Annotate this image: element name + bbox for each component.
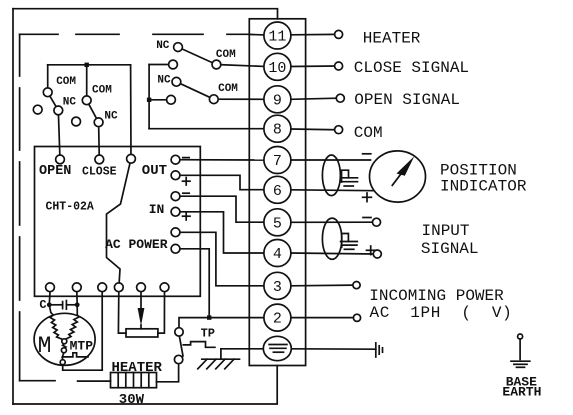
contact S3 COM xyxy=(212,60,221,69)
svg-text:30W: 30W xyxy=(119,392,145,408)
switch S3 arm (aux close) xyxy=(178,47,216,64)
wire terminal 5 to input minus xyxy=(291,221,372,223)
wire terminal2 to capacitor right xyxy=(76,292,78,305)
svg-text:NC: NC xyxy=(156,40,170,52)
wire switch common top line xyxy=(48,64,131,66)
wire to COM of close limit switch xyxy=(86,65,88,101)
contact S1 NO unconnected xyxy=(33,105,42,114)
svg-text:MTP: MTP xyxy=(70,339,94,354)
wire terminal3 vertical xyxy=(101,292,103,371)
wire IN- to terminal 5 xyxy=(176,196,264,222)
motor M body xyxy=(34,313,95,365)
svg-text:CLOSE SIGNAL: CLOSE SIGNAL xyxy=(354,59,469,77)
contact S2 NO unconnected xyxy=(72,117,81,126)
tag circle incoming 2 xyxy=(353,314,360,321)
pin CHT bottom 1 xyxy=(46,283,55,292)
tag circle OPEN SIGNAL xyxy=(336,94,344,102)
ground frame symbol right of strip xyxy=(376,343,383,357)
terminal strip outline xyxy=(249,19,305,366)
contact S4 NC xyxy=(172,77,181,86)
shield earth symbol lower xyxy=(341,234,358,250)
svg-text:OUT: OUT xyxy=(142,163,167,179)
svg-text:4: 4 xyxy=(273,246,282,263)
CHT-02A controller box xyxy=(35,147,201,297)
pin CHT bottom 3 xyxy=(98,283,107,292)
pin CHT bottom 2 xyxy=(72,283,81,292)
wire terminal4 to pot left xyxy=(118,292,126,334)
contact S3 NC xyxy=(174,43,183,52)
wire OUT- to terminal 7 xyxy=(176,159,264,161)
motor winding right xyxy=(66,305,79,339)
svg-text:SIGNAL: SIGNAL xyxy=(421,240,479,258)
wire terminal 4 to input plus xyxy=(291,253,373,254)
motor thermal protector blade xyxy=(62,353,88,357)
shield ellipse input signal cable xyxy=(322,218,341,259)
svg-text:COM: COM xyxy=(218,83,238,95)
switch S2 arm (close limit) xyxy=(87,100,99,122)
svg-text:INCOMING POWER: INCOMING POWER xyxy=(369,287,504,305)
relay arm inside CHT box xyxy=(107,159,132,285)
svg-text:HEATER: HEATER xyxy=(112,360,163,376)
terminal 5 xyxy=(264,209,291,236)
sign plus at meter xyxy=(363,193,372,202)
contact S4 NO xyxy=(167,95,176,104)
wire terminal 7 to meter minus xyxy=(291,159,371,161)
wire NC of S2 to CLOSE terminal xyxy=(98,122,101,159)
motor winding left xyxy=(49,305,63,340)
terminal earth circle xyxy=(263,336,291,360)
contact S4 COM xyxy=(209,95,218,104)
wire terminal 3 to incoming power xyxy=(291,284,353,287)
svg-text:COM: COM xyxy=(354,124,383,142)
svg-text:M: M xyxy=(38,333,52,359)
wire outer border top xyxy=(13,9,278,19)
pin CLOSE xyxy=(95,155,104,164)
terminal earth symbol bars xyxy=(269,345,287,353)
wire terminal 11 to heater tag xyxy=(291,33,335,35)
terminal 8 xyxy=(264,115,291,142)
tag circle input plus xyxy=(373,250,381,258)
svg-text:3: 3 xyxy=(273,279,282,296)
terminal 2 xyxy=(264,304,291,331)
svg-text:OPEN: OPEN xyxy=(39,164,71,179)
tag circle COM xyxy=(335,126,343,134)
sign plus at input signal xyxy=(367,246,376,255)
wire to COM of open limit switch xyxy=(47,65,49,93)
pin CHT bottom 5 xyxy=(137,283,146,292)
meter needle xyxy=(392,175,400,186)
pin CHT bottom 4 xyxy=(114,283,123,292)
svg-text:AC POWER: AC POWER xyxy=(105,237,168,252)
wire dashed enclosure top xyxy=(20,33,250,35)
wire S4 NO to common vertical xyxy=(149,99,171,101)
terminal 10 xyxy=(264,53,291,80)
wire earth terminal right xyxy=(291,348,376,350)
label right side tags xyxy=(354,30,527,323)
contact S2 COM xyxy=(82,96,91,105)
switch TP arm xyxy=(179,333,183,356)
wire AC power N to terminal 2 xyxy=(176,249,264,318)
svg-text:NC: NC xyxy=(104,110,118,122)
terminal circles group (white filled) xyxy=(263,22,291,361)
wire S3 COM to terminal 10 xyxy=(216,65,263,67)
svg-text:NC: NC xyxy=(63,97,77,109)
pin OUT plus xyxy=(171,171,180,180)
sign plus at IN xyxy=(183,213,191,221)
svg-text:9: 9 xyxy=(273,92,282,109)
wire aux common to terminal 8 xyxy=(149,128,264,130)
pin relay common xyxy=(127,154,136,163)
svg-text:CHT-02A: CHT-02A xyxy=(46,200,94,213)
wire branch to TP switch xyxy=(179,318,209,329)
svg-text:COM: COM xyxy=(56,76,76,88)
switch S4 arm (aux open) xyxy=(176,82,213,99)
contact TP bottom xyxy=(174,355,182,363)
terminal 11 xyxy=(264,22,291,49)
wire dashed enclosure bottom xyxy=(20,380,111,382)
wire terminal 10 to close tag xyxy=(291,65,335,68)
svg-text:10: 10 xyxy=(268,60,286,77)
tag circle input minus xyxy=(373,218,381,226)
capacitor C leads xyxy=(49,304,62,306)
svg-text:TP: TP xyxy=(201,326,215,340)
node capacitor right dot xyxy=(75,302,80,307)
pin CHT bottom 6 xyxy=(160,283,169,292)
ground base earth symbol xyxy=(511,334,530,367)
tag circle HEATER xyxy=(335,30,343,38)
label terminal numbers xyxy=(268,29,286,328)
pin AC power L xyxy=(171,228,180,237)
wire aux common vertical xyxy=(148,65,150,129)
sign minus at OUT xyxy=(183,157,189,159)
tag circle incoming 3 xyxy=(353,282,360,289)
wire terminal 6 to meter plus xyxy=(291,189,374,192)
wire TP bottom to heater xyxy=(157,364,179,382)
motor tap circle lower xyxy=(60,360,65,365)
sign minus at input signal xyxy=(363,217,371,219)
motor thermal lower lead xyxy=(61,357,63,362)
wire dash stub to terminal 11 xyxy=(249,33,263,36)
heater resistor body xyxy=(111,373,157,388)
svg-text:7: 7 xyxy=(273,153,282,170)
tag circle CLOSE SIGNAL xyxy=(335,62,343,70)
contact S1 COM xyxy=(43,88,52,97)
terminal 4 xyxy=(264,240,291,267)
terminal 3 xyxy=(264,272,291,299)
potentiometer body xyxy=(126,329,158,337)
node capacitor left dot xyxy=(47,302,52,307)
sign plus at OUT xyxy=(183,178,191,186)
position indicator meter body xyxy=(370,151,426,202)
svg-text:CLOSE: CLOSE xyxy=(82,166,117,179)
wire terminal 8 to com tag xyxy=(291,128,335,131)
svg-text:5: 5 xyxy=(273,215,282,232)
sign minus at IN xyxy=(183,192,189,194)
contact S2 NC xyxy=(94,118,103,127)
node junction on switch top line xyxy=(85,63,89,67)
pin IN plus xyxy=(171,207,180,216)
svg-text:HEATER: HEATER xyxy=(363,30,421,48)
pin OPEN xyxy=(56,155,65,164)
contact TP top xyxy=(175,328,183,336)
svg-text:2: 2 xyxy=(273,311,282,328)
sign minus at meter xyxy=(363,153,371,155)
motor tap circle middle xyxy=(61,348,66,353)
svg-text:IN: IN xyxy=(149,202,165,217)
pin AC power N xyxy=(171,244,180,253)
wire IN+ to terminal 4 xyxy=(176,212,264,253)
shield ellipse position indicator cable xyxy=(322,155,340,196)
wire terminal 9 to open tag xyxy=(291,98,336,99)
wire AC power L to terminal 3 xyxy=(176,232,264,285)
wire outer border bottom xyxy=(13,366,277,405)
label switch contacts xyxy=(56,40,238,123)
contact S3 NO xyxy=(169,60,178,69)
potentiometer wiper arrow xyxy=(138,308,145,326)
svg-text:AC 1PH ( V): AC 1PH ( V) xyxy=(370,304,513,322)
svg-text:COM: COM xyxy=(216,49,236,61)
ground chassis symbol xyxy=(198,359,240,369)
switch S1 arm (open limit) xyxy=(48,92,59,110)
wire terminal1 to capacitor left xyxy=(48,292,51,305)
pin IN minus xyxy=(171,192,180,201)
svg-text:6: 6 xyxy=(273,183,282,200)
contact S1 NC xyxy=(54,106,63,115)
svg-text:11: 11 xyxy=(268,29,286,46)
svg-text:INPUT: INPUT xyxy=(422,222,470,240)
svg-text:COM: COM xyxy=(92,84,112,96)
terminal 7 xyxy=(264,147,291,174)
thermal TP element symbol xyxy=(183,342,215,348)
shield earth symbol upper xyxy=(342,170,358,186)
wire S3 NO to common vertical xyxy=(149,64,173,66)
node junction aux common xyxy=(147,98,151,102)
node junction at terminal 2 wire xyxy=(207,315,211,319)
wire terminal6 to pot right xyxy=(158,292,165,334)
small circles group xyxy=(33,30,381,364)
capacitor C plates xyxy=(62,302,64,309)
wire terminal 2 to incoming power xyxy=(291,317,354,319)
motor tap circle upper xyxy=(62,339,67,344)
wire outer border left xyxy=(12,9,14,404)
terminal 9 xyxy=(264,86,291,113)
wire dashed enclosure left xyxy=(19,34,21,380)
svg-text:8: 8 xyxy=(273,122,282,139)
svg-text:INDICATOR: INDICATOR xyxy=(440,177,527,195)
terminal 6 xyxy=(264,176,291,203)
wire motor bottom out xyxy=(63,362,102,370)
svg-text:EARTH: EARTH xyxy=(502,384,541,399)
wire OUT+ to terminal 6 xyxy=(176,175,264,189)
svg-text:NC: NC xyxy=(157,75,171,87)
svg-text:C: C xyxy=(39,298,46,312)
wire NC of S1 to OPEN terminal xyxy=(58,110,60,159)
wire terminal5 wiper xyxy=(140,292,142,309)
wire earth terminal to chassis ground xyxy=(221,348,264,350)
wire S4 COM to terminal 9 xyxy=(214,98,264,100)
motor winding tap squiggle xyxy=(63,344,66,349)
pin OUT minus xyxy=(171,155,180,164)
wire top line to third CHT terminal xyxy=(130,65,132,159)
svg-text:OPEN SIGNAL: OPEN SIGNAL xyxy=(354,91,460,109)
